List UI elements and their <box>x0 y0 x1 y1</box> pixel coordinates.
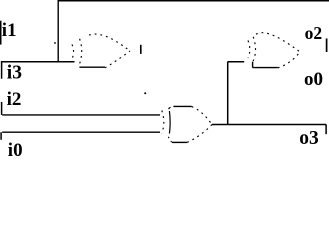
xor gate U2 (middle, dotted outline) <box>162 107 212 143</box>
xor gate U3 (right, dotted outline) <box>248 33 300 68</box>
svg-text:i3: i3 <box>7 63 22 84</box>
wire i0 net horizontal <box>2 131 160 133</box>
port stub i2 vertical <box>1 102 3 115</box>
solid back curve of U2 <box>168 111 171 134</box>
port stub i1 <box>0 21 2 45</box>
wire i3 net horizontal <box>1 61 75 63</box>
solid top edge segment of U2 <box>173 105 191 107</box>
svg-text:o2: o2 <box>305 23 323 43</box>
svg-text:o0: o0 <box>304 69 323 90</box>
wire o3 net from U2 output <box>212 124 326 126</box>
dangling output stub of U1 <box>140 45 142 54</box>
solid bottom-left edge of U3 vertical <box>252 62 254 68</box>
port stub o2 vertical <box>326 39 328 53</box>
xor gate U1 (top-left, dotted outline) <box>72 34 130 68</box>
wire branch horizontal into U3 <box>228 61 245 63</box>
wire branch vertical to U3 input <box>227 62 229 125</box>
solid bottom edge segment of U2 <box>172 141 187 143</box>
wire: vertical from top border down to i3 net <box>57 0 59 62</box>
stray dot near node <box>54 42 56 44</box>
svg-text:i1: i1 <box>2 20 17 41</box>
svg-text:o3: o3 <box>299 128 319 149</box>
port stub o3 vertical <box>325 124 327 134</box>
solid bottom edge segment of U1 <box>79 66 105 68</box>
port stub i3 vertical <box>1 62 3 79</box>
port stub i0 vertical <box>0 132 2 140</box>
svg-text:i0: i0 <box>8 140 23 157</box>
junction dot near U2 <box>144 92 146 94</box>
wire i2 net horizontal <box>2 114 160 116</box>
svg-text:i2: i2 <box>7 89 22 110</box>
solid bottom edge segment of U3 <box>253 67 278 69</box>
wire: top border net horizontal <box>58 0 329 2</box>
